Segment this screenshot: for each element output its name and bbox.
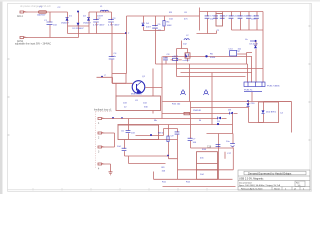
wire output top rail	[200, 11, 264, 13]
diode D8	[230, 112, 233, 115]
diode D2	[87, 18, 90, 21]
diode D9	[218, 117, 221, 120]
wire u1 left edge feed	[115, 83, 117, 96]
node rail junction248	[247, 100, 249, 102]
svg-text:ACL1: ACL1	[17, 15, 23, 18]
wire zbox top	[264, 101, 292, 103]
svg-text:e4007: e4007	[172, 56, 179, 58]
connector J2 pin 3	[98, 146, 105, 148]
wire rail155	[125, 155, 169, 157]
wire C3 lower	[111, 26, 113, 84]
capacitor C4	[109, 57, 115, 59]
capacitor C21	[175, 129, 180, 135]
node B+ junction	[77, 11, 79, 13]
inductor L1	[101, 10, 109, 11]
node fb2 junction	[167, 155, 169, 157]
transistor Q1	[132, 81, 145, 94]
wire rung73	[112, 73, 127, 75]
snubber cap leg	[155, 16, 157, 31]
svg-text:PC817 4N35: PC817 4N35	[267, 86, 280, 88]
wire emitter down	[161, 57, 163, 119]
svg-text:USB 2.0 5V, Magnetic: USB 2.0 5V, Magnetic	[239, 178, 264, 181]
TL431 box	[197, 152, 218, 180]
wire opto top pins	[248, 57, 252, 83]
bridge right leg wire	[88, 12, 90, 34]
negative rail wire	[68, 33, 127, 35]
node NEG junction	[125, 32, 127, 34]
wire bottom rail	[154, 114, 233, 180]
wire bottom return rail	[163, 186, 236, 188]
wire c16 link	[237, 53, 246, 65]
wire P stub	[97, 77, 113, 83]
wire q1 collector	[152, 69, 154, 97]
page margin shading top	[0, 0, 320, 2]
zener2 group box	[259, 102, 279, 123]
wire fb lower left	[153, 172, 155, 180]
sheet border frame	[8, 4, 312, 192]
capacitor C17	[163, 57, 168, 65]
node VCC junction	[254, 40, 256, 42]
wire rung82	[112, 74, 126, 84]
svg-text:Spec: 100-240V, 50-60Hz / Outp: Spec: 100-240V, 50-60Hz / Output: 5V, 1A	[239, 184, 280, 187]
diode D6	[254, 42, 257, 83]
capacitor C9	[220, 12, 225, 19]
svg-text:100K: 100K	[167, 25, 173, 27]
earth symbol	[203, 89, 208, 95]
bridge left leg wire	[67, 12, 69, 34]
diode D4	[142, 23, 145, 26]
ground arrow	[109, 172, 113, 175]
resistor R9	[167, 125, 169, 157]
wire sec riser	[199, 8, 201, 31]
capacitor C7	[205, 12, 210, 34]
wire right leg 291	[291, 102, 293, 133]
component box K1	[216, 14, 223, 27]
diode D3	[77, 23, 80, 26]
wire q1 emitter right	[145, 87, 162, 89]
svg-text:Demand Expressed by Harold Enl: Demand Expressed by Harold Enlaps	[248, 171, 292, 175]
svg-text:ZD2 B9V1: ZD2 B9V1	[266, 112, 277, 114]
wire rail76	[177, 76, 246, 78]
svg-text:R15 102: R15 102	[172, 104, 181, 106]
capacitor C20	[122, 140, 127, 157]
svg-text:D5 4148: D5 4148	[250, 44, 259, 46]
wire right col232	[232, 148, 234, 170]
capacitor C8	[213, 12, 218, 19]
title block frame	[238, 170, 310, 190]
wire jog 168-177	[169, 156, 178, 159]
wire rail68	[177, 68, 264, 70]
capacitor CX1	[47, 12, 53, 38]
wire pin4	[105, 164, 111, 172]
wire pin23 bracket	[105, 133, 115, 147]
wire c21 column lower	[177, 140, 179, 180]
page margin shading left	[0, 0, 3, 194]
node mid junction	[185, 55, 187, 57]
connector J1 pin ACN	[20, 36, 28, 38]
svg-text:1A/250V: 1A/250V	[37, 14, 46, 17]
wire right drop71	[211, 73, 213, 125]
svg-text:dc-power-charger 5V1A sch: dc-power-charger 5V1A sch	[20, 5, 51, 8]
main lower rail	[163, 101, 292, 103]
resistor R4	[163, 21, 165, 27]
capacitor C23 column	[216, 134, 221, 180]
wire aux branch	[177, 41, 188, 77]
node fb junction	[150, 134, 152, 136]
controller box U1	[116, 96, 161, 111]
snubber R leg	[156, 16, 165, 31]
fuse F1	[39, 11, 47, 13]
wire snubleg down	[155, 31, 157, 65]
bridge inner horizontal	[68, 25, 90, 27]
wire primary feed	[127, 15, 200, 17]
svg-text:Sheet: Sheet	[274, 188, 280, 191]
wire N input	[28, 34, 79, 38]
svg-text:D3 1N4007: D3 1N4007	[73, 28, 85, 30]
wire opto bottom	[251, 92, 253, 102]
capacitor C22	[188, 102, 233, 149]
connector J1 pin ACL	[20, 11, 28, 13]
wire rail124	[118, 124, 233, 126]
wire fb right	[163, 129, 165, 136]
wire fb frame	[141, 129, 178, 140]
capacitor C19	[126, 119, 131, 140]
svg-text:4007: 4007	[146, 27, 152, 29]
svg-text:C16: C16	[207, 147, 212, 149]
wire rail169	[178, 169, 234, 171]
wire output right leg	[262, 12, 264, 42]
wire output bottom rail	[232, 29, 264, 31]
inductor L2	[184, 39, 189, 40]
wire net52	[247, 52, 253, 54]
wire rail117	[105, 118, 227, 120]
connector J2 pin 4	[98, 163, 105, 165]
zener ZD2	[262, 102, 265, 123]
wire L input	[28, 11, 68, 13]
capacitor C12	[246, 12, 251, 31]
svg-text:ce4007: ce4007	[183, 60, 191, 62]
resistor R15	[184, 112, 190, 114]
node mid junction b	[205, 55, 207, 57]
connector J2 pin 1	[98, 117, 105, 119]
capacitor C16	[230, 51, 237, 57]
wire drain drop	[189, 64, 191, 102]
snubber diode D4 leg	[144, 16, 156, 31]
optocoupler U2	[244, 82, 265, 87]
net label VCC	[250, 40, 254, 42]
wire fb mid	[136, 135, 164, 137]
zener ZD1	[247, 102, 250, 123]
svg-text:Release April 21 2013: Release April 21 2013	[241, 188, 263, 191]
wire rail107	[191, 107, 249, 109]
earth symbol left	[180, 89, 185, 95]
wire filter top	[89, 11, 112, 13]
svg-text:R104: R104	[210, 57, 216, 59]
connector J2 pin 2	[98, 132, 105, 134]
wire rail163	[129, 156, 166, 164]
wire rail133	[207, 133, 234, 135]
bridge center wire	[78, 12, 80, 34]
wire right leg68	[262, 42, 264, 83]
resonator X1	[185, 49, 190, 62]
wire c7 bottom rail	[197, 31, 217, 34]
node P junction	[101, 76, 103, 78]
group box A	[118, 125, 159, 140]
wire zener bottom	[249, 122, 264, 124]
capacitor C10	[229, 12, 234, 31]
capacitor C5	[152, 26, 158, 28]
net underline	[244, 90, 262, 92]
capacitor C17b column	[224, 152, 226, 159]
svg-text:220u: 220u	[251, 19, 257, 21]
capacitor C2	[93, 12, 99, 34]
node rail113 junction	[112, 117, 114, 119]
svg-text:4.7uF 400V: 4.7uF 400V	[93, 24, 105, 26]
capacitor C11	[238, 12, 243, 31]
wire rail72	[181, 72, 253, 74]
wire q1 base	[113, 82, 133, 84]
svg-text:1N4007: 1N4007	[61, 23, 69, 25]
capacitor C3	[108, 12, 114, 26]
wire snubber drop	[126, 16, 128, 74]
svg-text:1N4148: 1N4148	[193, 110, 201, 112]
wire rail63	[156, 63, 248, 65]
svg-text:1N4007: 1N4007	[83, 23, 91, 25]
wire rail113	[162, 113, 238, 115]
svg-text:4.7uF 400V: 4.7uF 400V	[108, 24, 120, 26]
svg-text:MJE13003: MJE13003	[131, 94, 142, 96]
connector J2 dashed group	[96, 112, 113, 169]
capacitor C24 electrolytic	[230, 134, 235, 149]
resistor R6	[171, 58, 182, 60]
diode D1	[66, 18, 69, 21]
node rail124 junction	[217, 123, 219, 125]
capacitor C13	[254, 12, 259, 31]
svg-text:feedback loop u1: feedback loop u1	[94, 110, 112, 112]
wire mid rail56	[163, 56, 253, 58]
node rail118b junction	[121, 117, 123, 119]
wire u1 bottom	[152, 111, 154, 114]
svg-text:adjustable line input 90V ~ 26: adjustable line input 90V ~ 264VAC	[15, 43, 51, 46]
